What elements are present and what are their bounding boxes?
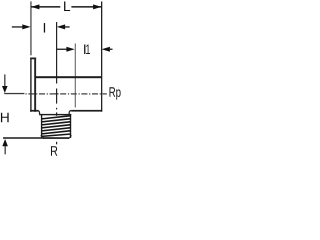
horizontal centerline (dash-dot, y=93.9) — [26, 93, 107, 94]
tail I right — [65, 26, 70, 27]
extension line gray socket depth (x=75.3) — [75, 44, 76, 108]
label H — [1, 113, 9, 122]
tail I left — [12, 26, 23, 27]
arrowhead L left — [31, 4, 39, 9]
thread hatch lines — [42, 116, 71, 137]
tail I1 left — [57, 49, 67, 50]
extension line right (x=101.6, from L row down, becomes body right edge) — [101, 2, 102, 112]
label Rp — [109, 87, 115, 96]
H bottom reference line — [3, 137, 43, 139]
arrowhead I left — [22, 24, 30, 29]
vertical centerline of stub (dash-dot, x=56.6) — [56, 89, 57, 145]
left shoulder step (rounded tab) — [38, 111, 40, 115]
thread stub bottom edge with chamfers — [40, 135, 72, 139]
extension line for I / stub centerline upper part (x=56.6 solid) — [56, 22, 57, 84]
arrowhead I1 right — [102, 47, 110, 52]
body bottom edge left segment (flange to stub neck) — [30, 110, 38, 112]
thread cylinder left edge — [41, 115, 42, 138]
label R — [51, 146, 57, 155]
right shoulder step (rounded tab) — [69, 111, 71, 115]
dimension line L — [31, 6, 60, 8]
body top edge — [35, 76, 103, 78]
body bottom edge right segment (stub neck to right end) — [71, 110, 102, 112]
label L — [64, 2, 70, 11]
H dimension bottom arrow (up) — [2, 139, 8, 146]
hex shoulder bottom edge — [39, 114, 71, 115]
tail I1 right — [110, 49, 113, 50]
H dimension top arrow (down, tip on centerline) — [4, 74, 5, 87]
label I — [44, 23, 45, 32]
wall flange outline — [30, 58, 31, 112]
H top reference line (centerline extension, solid) — [4, 93, 24, 94]
arrowhead L right — [93, 4, 101, 9]
label I1 — [84, 45, 85, 54]
arrowhead I1 left — [66, 47, 74, 52]
thread cylinder right edge — [70, 115, 71, 138]
extension line left (x=30.9, from L row down to flange top) — [30, 1, 31, 55]
arrowhead I right — [57, 24, 65, 29]
